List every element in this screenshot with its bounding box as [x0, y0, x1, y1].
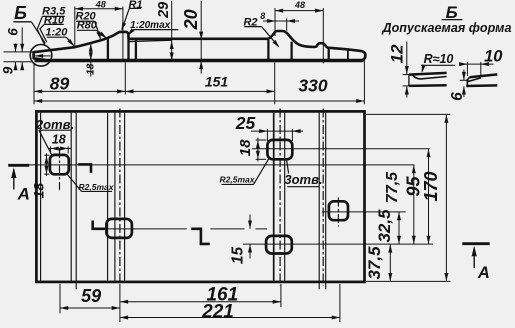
svg-text:8: 8 — [260, 11, 265, 21]
svg-text:151: 151 — [205, 73, 229, 89]
svg-text:6: 6 — [5, 28, 20, 36]
svg-text:1:20max: 1:20max — [130, 20, 170, 31]
svg-text:R2,5max: R2,5max — [79, 182, 115, 192]
svg-text:R1: R1 — [128, 0, 142, 11]
svg-text:3отв.: 3отв. — [284, 172, 322, 187]
svg-text:89: 89 — [50, 74, 70, 94]
svg-text:18: 18 — [85, 63, 96, 75]
svg-text:20: 20 — [181, 9, 201, 30]
svg-text:77,5: 77,5 — [384, 171, 401, 203]
svg-text:9: 9 — [0, 66, 15, 74]
svg-text:48: 48 — [294, 0, 305, 10]
svg-text:25: 25 — [235, 113, 256, 133]
svg-text:R2: R2 — [243, 17, 257, 29]
svg-text:А: А — [17, 185, 30, 204]
svg-text:37,5: 37,5 — [365, 246, 384, 280]
svg-text:59: 59 — [81, 286, 101, 306]
svg-text:18: 18 — [52, 133, 66, 147]
svg-text:R≈10: R≈10 — [424, 52, 454, 66]
svg-text:18: 18 — [30, 183, 46, 199]
svg-text:221: 221 — [201, 301, 234, 322]
svg-text:А: А — [477, 264, 490, 282]
svg-text:R10: R10 — [44, 15, 65, 27]
svg-text:12: 12 — [387, 44, 406, 63]
svg-text:6: 6 — [449, 92, 466, 101]
svg-text:29: 29 — [156, 2, 172, 19]
svg-text:32,5: 32,5 — [375, 209, 394, 243]
svg-text:1:20: 1:20 — [45, 26, 68, 38]
svg-text:Допускаемая форма: Допускаемая форма — [382, 21, 512, 35]
svg-text:R80: R80 — [77, 20, 98, 32]
svg-text:330: 330 — [298, 75, 327, 95]
svg-text:170: 170 — [421, 171, 441, 201]
svg-text:10: 10 — [484, 48, 503, 66]
svg-text:R2,5max: R2,5max — [220, 174, 256, 184]
svg-text:Б: Б — [14, 3, 27, 23]
svg-text:48: 48 — [95, 0, 106, 10]
svg-text:15: 15 — [230, 247, 247, 265]
svg-text:18: 18 — [237, 139, 254, 156]
